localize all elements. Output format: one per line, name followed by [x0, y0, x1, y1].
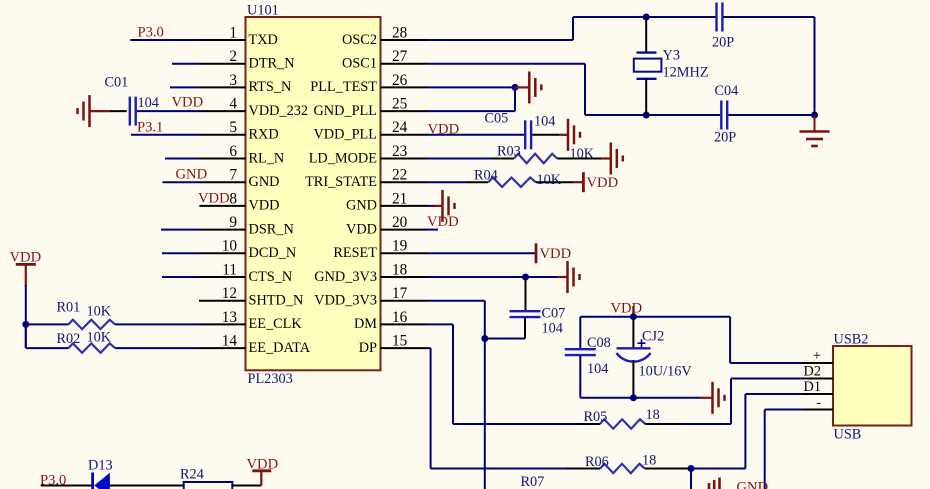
svg-text:VDD_PLL: VDD_PLL	[313, 127, 377, 143]
power VDD (RESET pin 19)	[536, 243, 571, 263]
U101 pin 6 RL_N	[165, 143, 284, 166]
junction (C04/ground)	[811, 112, 818, 119]
svg-text:C05: C05	[485, 111, 509, 127]
svg-text:5: 5	[229, 119, 237, 136]
U101 pin 8 VDD	[199, 190, 279, 213]
svg-text:RXD: RXD	[249, 127, 279, 143]
capacitor C04 20P	[714, 83, 738, 146]
junction (VDD_3V3 node)	[481, 335, 488, 342]
junction (pin 26 node)	[512, 84, 519, 91]
net label GND (pin 7)	[176, 167, 208, 183]
ground (CJ2 loop)	[700, 382, 725, 414]
junction (crystal bottom)	[643, 112, 650, 119]
svg-text:DTR_N: DTR_N	[249, 56, 295, 72]
svg-text:C04: C04	[715, 83, 739, 99]
net label VDD (pin 20)	[427, 214, 459, 230]
svg-text:VDD: VDD	[540, 246, 572, 262]
svg-text:VDD: VDD	[346, 221, 377, 237]
svg-text:R05: R05	[584, 409, 608, 425]
svg-text:104: 104	[534, 114, 555, 130]
svg-text:DSR_N: DSR_N	[249, 221, 294, 237]
svg-text:10K: 10K	[537, 172, 562, 188]
IC U101 PL2303 body	[246, 17, 381, 370]
svg-text:10K: 10K	[87, 330, 112, 346]
wire crystal bottom to C04	[646, 114, 720, 116]
junction (loop bottom)	[630, 394, 637, 401]
capacitor C01	[105, 75, 159, 126]
wire DP down (pin 15)	[430, 348, 432, 468]
U101 pin 2 DTR_N	[172, 48, 295, 71]
U101 pin 17 VDD_3V3	[314, 285, 485, 308]
svg-text:VDD: VDD	[428, 122, 460, 138]
svg-text:DM: DM	[354, 316, 377, 332]
svg-text:27: 27	[392, 48, 408, 65]
svg-text:12: 12	[222, 285, 237, 302]
svg-text:TRI_STATE: TRI_STATE	[305, 174, 377, 190]
resistor R06 18	[431, 453, 657, 474]
svg-text:16: 16	[392, 309, 408, 326]
junction (pin 18 / C07)	[522, 274, 529, 281]
svg-text:GND: GND	[346, 198, 377, 214]
svg-text:VDD: VDD	[249, 198, 280, 214]
svg-text:VDD: VDD	[198, 190, 230, 206]
svg-text:RL_N: RL_N	[249, 150, 285, 166]
svg-text:2: 2	[229, 48, 237, 65]
svg-text:VDD: VDD	[611, 301, 643, 317]
svg-text:VDD: VDD	[10, 249, 42, 265]
svg-text:OSC1: OSC1	[342, 56, 377, 72]
svg-text:OSC2: OSC2	[342, 32, 377, 48]
resistor R01 10K	[26, 299, 115, 329]
svg-text:24: 24	[392, 119, 408, 136]
U101 pin 18 GND_3V3	[314, 261, 558, 284]
svg-text:PL2303: PL2303	[248, 371, 293, 387]
svg-text:R24: R24	[180, 466, 204, 482]
svg-text:R07: R07	[521, 474, 545, 489]
wire R04 to VDD	[536, 181, 584, 183]
svg-text:LD_MODE: LD_MODE	[309, 150, 378, 166]
svg-text:D1: D1	[804, 379, 821, 395]
U101 pin 7 GND	[163, 167, 280, 190]
svg-text:R04: R04	[474, 168, 498, 184]
resistor R03 10K	[492, 144, 595, 164]
wire R03 to ground	[557, 158, 601, 160]
svg-text:R02: R02	[57, 331, 81, 347]
net label VDD (pin 8)	[198, 190, 230, 206]
svg-text:Y3: Y3	[663, 48, 680, 64]
comment USB	[834, 427, 862, 443]
ground (bottom GND)	[709, 478, 720, 489]
wire VDD stem to junction	[25, 285, 27, 348]
net label P3.1 (pin 5)	[137, 120, 163, 136]
svg-text:8: 8	[229, 190, 237, 207]
svg-text:U101: U101	[247, 3, 279, 19]
designator USB2	[834, 331, 869, 347]
U101 pin 23 LD_MODE	[309, 143, 492, 166]
USB2 pin D2	[803, 364, 833, 380]
wire R24 to VDD	[232, 485, 261, 487]
U101 pin 9 DSR_N	[161, 214, 294, 237]
svg-text:14: 14	[222, 333, 238, 350]
U101 pin 11 CTS_N	[162, 261, 292, 284]
junction (R06 net)	[688, 465, 695, 472]
U101 pin 22 TRI_STATE	[305, 167, 466, 190]
U101 pin 1 TXD	[130, 24, 278, 47]
U101 pin 25 GND_PLL	[313, 96, 515, 119]
svg-text:GND_PLL: GND_PLL	[313, 103, 377, 119]
svg-text:RTS_N: RTS_N	[249, 79, 292, 95]
svg-text:USB: USB	[834, 427, 862, 443]
connector USB2 body	[833, 346, 912, 426]
net label P3.0 (bottom)	[40, 473, 66, 489]
svg-text:19: 19	[392, 238, 408, 255]
wire junction down	[690, 469, 692, 489]
ground (C01)	[78, 95, 111, 127]
svg-text:25: 25	[392, 96, 408, 113]
svg-text:15: 15	[392, 333, 408, 350]
USB2 pin D1	[803, 379, 833, 395]
svg-text:7: 7	[229, 167, 237, 184]
U101 pin 4 VDD_232	[137, 96, 308, 119]
wire DM down (pin 16)	[452, 324, 454, 424]
wire VDD_3V3 vertical	[484, 301, 486, 489]
U101 pin 26 PLL_TEST	[310, 72, 515, 95]
wire P3.0 row	[41, 485, 92, 487]
junction (crystal top)	[643, 14, 650, 21]
svg-text:DP: DP	[359, 340, 377, 356]
svg-text:GND_3V3: GND_3V3	[314, 269, 377, 285]
svg-text:EE_DATA: EE_DATA	[249, 340, 311, 356]
wire crystal top to C03	[646, 16, 715, 18]
svg-text:28: 28	[392, 24, 408, 41]
svg-text:C08: C08	[587, 335, 611, 351]
svg-text:VDD_3V3: VDD_3V3	[314, 293, 377, 309]
U101 pin 10 DCD_N	[162, 238, 296, 261]
resistor R24	[180, 466, 232, 489]
wire OSC1 (pin 27) down to crystal bottom	[585, 64, 645, 115]
svg-text:GND: GND	[249, 174, 280, 190]
resistor R05 18	[453, 407, 660, 429]
net label P3.0 (pin 1)	[138, 25, 164, 41]
svg-text:GND: GND	[737, 480, 769, 489]
resistor R07 (bottom edge)	[521, 474, 545, 489]
svg-text:10U/16V: 10U/16V	[639, 364, 693, 380]
svg-text:10K: 10K	[87, 304, 112, 320]
U101 pin 5 RXD	[131, 119, 279, 142]
ground (R03)	[601, 143, 623, 175]
crystal Y3 12MHZ	[634, 17, 709, 115]
U101 pin 20 VDD	[346, 214, 438, 237]
svg-text:D2: D2	[804, 364, 821, 380]
capacitor C03 20P	[712, 3, 734, 51]
wire junction down to R02 row	[25, 324, 27, 348]
svg-text:12MHZ: 12MHZ	[663, 64, 709, 80]
ground (C05)	[559, 119, 580, 151]
junction (loop top / CJ2)	[630, 313, 637, 320]
svg-text:26: 26	[392, 72, 408, 89]
svg-text:22: 22	[392, 167, 407, 184]
wire OSC2 (pin 28) up to crystal top	[573, 17, 645, 40]
svg-text:20P: 20P	[712, 34, 734, 50]
svg-text:20P: 20P	[714, 130, 736, 146]
wire R06 to D1	[645, 394, 803, 469]
svg-text:CJ2: CJ2	[642, 329, 664, 345]
svg-text:104: 104	[138, 95, 159, 111]
svg-text:USB2: USB2	[834, 331, 869, 347]
ground (pin 18 GND_3V3)	[558, 261, 580, 293]
wire C03 to right corner	[724, 17, 815, 115]
ground (PLL_TEST pin 26)	[515, 71, 541, 103]
comment PL2303	[248, 371, 293, 387]
svg-text:17: 17	[392, 285, 408, 302]
svg-text:+: +	[813, 348, 821, 364]
svg-text:EE_CLK: EE_CLK	[249, 316, 303, 332]
U101 pin 15 DP	[359, 333, 431, 356]
USB2 pin +	[803, 348, 833, 364]
svg-text:P3.0: P3.0	[138, 25, 164, 41]
svg-text:R01: R01	[57, 299, 81, 315]
svg-text:4: 4	[229, 96, 237, 113]
diode D13	[88, 458, 113, 489]
svg-text:VDD: VDD	[427, 214, 459, 230]
ground (crystal)	[800, 115, 830, 146]
net label VDD (pin 4)	[172, 95, 204, 111]
U101 pin 13 EE_CLK	[115, 309, 302, 332]
svg-text:6: 6	[229, 143, 237, 160]
junction (VDD/R01/R02)	[22, 321, 29, 328]
U101 pin 3 RTS_N	[170, 72, 291, 95]
svg-text:VDD: VDD	[587, 175, 619, 191]
designator U101	[247, 3, 279, 19]
svg-text:R06: R06	[585, 454, 609, 470]
svg-text:18: 18	[392, 261, 408, 278]
net label VDD (pin 24)	[428, 122, 460, 138]
wire CJ2 loop bottom	[580, 397, 700, 399]
svg-text:20: 20	[392, 214, 408, 231]
U101 pin 28 OSC2	[342, 24, 573, 47]
power VDD (R04)	[583, 172, 618, 192]
capacitor C08 104	[565, 317, 611, 398]
svg-text:104: 104	[542, 321, 563, 337]
U101 pin 12 SHTD_N	[199, 285, 303, 308]
svg-text:18: 18	[646, 407, 660, 423]
svg-text:P3.1: P3.1	[137, 120, 163, 136]
svg-text:23: 23	[392, 143, 408, 160]
svg-text:21: 21	[392, 190, 407, 207]
svg-text:DCD_N: DCD_N	[249, 245, 297, 261]
wire pin17 net to C07	[485, 338, 525, 340]
svg-text:C01: C01	[105, 75, 129, 91]
resistor R04 10K	[466, 168, 562, 188]
net label GND (bottom)	[737, 480, 769, 489]
wire USB - pin down	[765, 410, 803, 489]
svg-text:18: 18	[642, 453, 656, 469]
power VDD (R24)	[247, 457, 279, 486]
svg-text:VDD: VDD	[172, 95, 204, 111]
wire C05 to ground	[532, 134, 559, 136]
svg-text:SHTD_N: SHTD_N	[249, 293, 304, 309]
svg-text:3: 3	[229, 72, 237, 89]
wire CJ2 loop top	[580, 316, 730, 318]
svg-text:C07: C07	[542, 306, 566, 322]
svg-text:CTS_N: CTS_N	[249, 269, 293, 285]
svg-text:VDD_232: VDD_232	[249, 103, 309, 119]
svg-text:R03: R03	[497, 144, 521, 160]
svg-text:104: 104	[587, 361, 608, 377]
svg-text:PLL_TEST: PLL_TEST	[310, 79, 377, 95]
U101 pin 19 RESET	[333, 238, 535, 261]
svg-text:13: 13	[222, 309, 238, 326]
wire loop to USB + pin	[730, 317, 803, 363]
wire C04 to ground corner	[728, 114, 814, 116]
power VDD (CJ2 loop)	[611, 301, 643, 318]
U101 pin 14 EE_DATA	[115, 333, 311, 356]
power VDD (R01/R02 pull-ups)	[10, 249, 42, 286]
wire D13 to R24	[110, 485, 184, 487]
resistor R02 10K	[26, 330, 115, 353]
svg-text:RESET: RESET	[333, 245, 377, 261]
U101 pin 24 VDD_PLL	[313, 119, 524, 142]
svg-text:10: 10	[222, 238, 238, 255]
svg-text:D13: D13	[88, 458, 113, 474]
svg-text:GND: GND	[176, 167, 208, 183]
svg-text:-: -	[816, 395, 821, 411]
U101 pin 27 OSC1	[342, 48, 585, 71]
USB2 pin -	[803, 395, 833, 411]
U101 pin 16 DM	[354, 309, 453, 332]
wire R05 to D2	[645, 379, 803, 425]
ground (pin 21 GND)	[434, 190, 455, 222]
U101 pin 21 GND	[346, 190, 433, 213]
svg-text:1: 1	[229, 24, 237, 41]
capacitor C05 104	[485, 111, 556, 150]
wire pins 25/26 tie	[514, 87, 516, 111]
svg-text:TXD: TXD	[249, 32, 278, 48]
svg-text:11: 11	[222, 261, 237, 278]
capacitor C07 104	[510, 277, 566, 339]
svg-text:9: 9	[229, 214, 237, 231]
capacitor CJ2 10U/16V electrolytic	[617, 317, 693, 398]
